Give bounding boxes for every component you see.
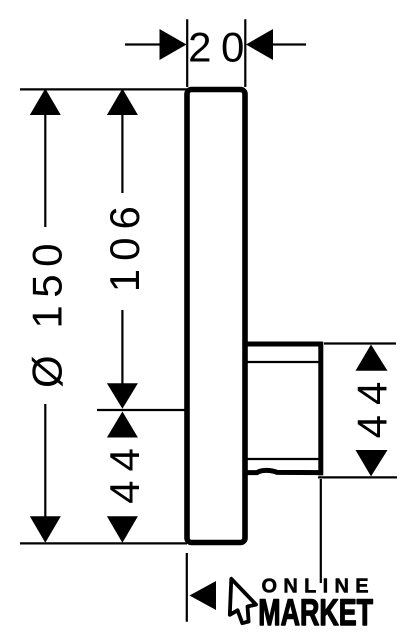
bottom extension line (plate bottom, going left) [20,542,187,544]
dim 150 top arrow [30,89,61,116]
svg-text:44: 44 [101,439,148,504]
svg-text:MARKET: MARKET [258,592,373,633]
dim 20 right tail [272,43,306,45]
knob top edge [245,342,322,347]
dim 44 right top arrow [356,345,388,371]
logo cursor icon [230,579,256,623]
dim 20 right arrow [246,29,273,60]
svg-text:44: 44 [348,372,395,439]
top extension line (plate top, going left) [20,88,187,90]
dim 44 left top arrow [107,412,138,438]
extension line right of knob, bottom [318,476,397,478]
dim 106 bottom arrow [107,383,138,409]
knob inner line lower [247,458,319,460]
knob bottom edge with wave [245,470,322,472]
dim 106 top arrow [107,89,138,116]
bottom dim left arrow [190,581,217,610]
extension line right of knob, top [324,342,396,344]
svg-text:106: 106 [101,198,148,292]
dim 106 lower segment [121,310,123,385]
svg-text:20: 20 [188,24,254,71]
dim 150 bottom arrow [30,516,61,543]
dim 20 left arrow [160,29,187,60]
plate outline (side view, thick rounded rect) [187,90,245,543]
extension line left of dim 20 [186,19,188,87]
lower extension line from plate left edge [186,553,188,622]
dim 150 upper segment [44,114,46,227]
tick line at 106/44 junction [97,409,186,411]
dim 150 lower segment [44,404,46,519]
extension line right of dim 20 [244,19,246,87]
svg-text:Ø 150: Ø 150 [23,236,70,388]
dim 20 left tail [125,43,160,45]
lower extension line from knob right edge [320,479,322,583]
logo text MARKET [258,592,373,633]
dim 44 left bottom arrow [107,516,138,543]
dim 106 upper segment [121,114,123,193]
knob right edge [318,342,323,476]
dim 44 right bottom arrow [356,450,388,476]
knob inner line upper [247,361,319,363]
